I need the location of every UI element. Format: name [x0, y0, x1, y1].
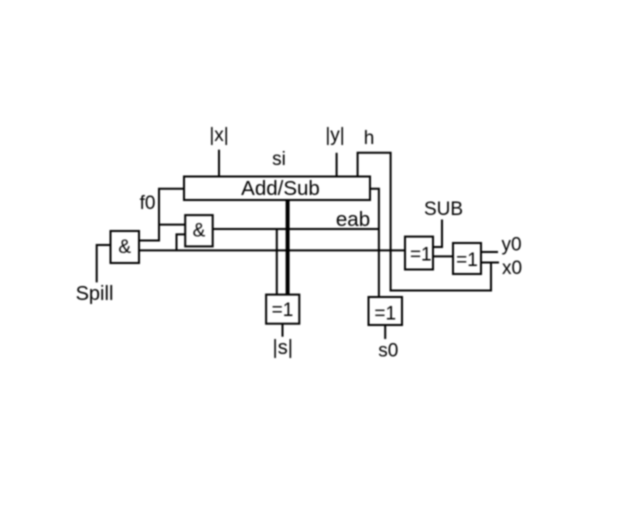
svg-text:&: &: [193, 221, 206, 242]
wire thick bus from Add/Sub bottom into U6 top: [286, 199, 290, 295]
wire h net: from Add/Sub top up, right, down, right, up to x0 input: [358, 153, 491, 291]
wire eab jog from Add/Sub right edge down into U5 top: [370, 189, 379, 297]
svg-text:=1: =1: [272, 300, 294, 321]
wire |y| lead into Add/Sub top: [336, 153, 338, 177]
AND gate G2: [185, 215, 213, 246]
svg-text:|y|: |y|: [325, 125, 344, 146]
svg-text:=1: =1: [374, 304, 396, 325]
svg-text:y0: y0: [501, 235, 521, 256]
wire f0 branch into G2 input: [159, 224, 185, 226]
svg-text:si: si: [272, 149, 286, 170]
svg-text:&: &: [118, 237, 131, 258]
svg-text:|s|: |s|: [273, 337, 293, 359]
wire long line from G1 output to U3 left input: [139, 249, 405, 251]
svg-text:|x|: |x|: [209, 125, 228, 146]
Add/Sub unit box: [184, 177, 370, 201]
svg-text:=1: =1: [410, 244, 432, 265]
XOR gate U3 (=1, SUB): [405, 237, 433, 270]
svg-text:f0: f0: [140, 193, 156, 214]
svg-text:h: h: [364, 128, 375, 149]
wire |x| lead into Add/Sub top: [218, 150, 220, 177]
svg-text:=1: =1: [456, 250, 478, 271]
wire step from long line up into G2 second input: [177, 234, 186, 250]
wire x0 stub into U4 right edge: [481, 262, 499, 264]
wire U5 output stub: [384, 325, 386, 339]
AND gate G1: [111, 231, 140, 263]
svg-text:eab: eab: [336, 208, 370, 231]
wire SUB lead into U3 right edge: [433, 220, 442, 248]
wire U3 output to U4 input: [433, 255, 453, 257]
wire U6 output stub: [282, 324, 284, 337]
svg-text:x0: x0: [502, 258, 522, 279]
svg-text:SUB: SUB: [424, 199, 463, 220]
svg-text:Add/Sub: Add/Sub: [241, 177, 320, 200]
wire tap from eab line down into U6 top: [276, 229, 278, 295]
svg-text:Spill: Spill: [76, 283, 114, 305]
XOR gate U6 (=1, |s|): [266, 295, 299, 324]
wire eab: G2 output to vertical: [213, 228, 379, 230]
wire y0 output from U4: [481, 251, 498, 253]
svg-text:s0: s0: [378, 341, 398, 362]
XOR gate U5 (=1, s0): [369, 297, 403, 325]
XOR gate U4 (=1, y0/x0): [453, 243, 481, 274]
wire Spill lead into G1 input: [97, 245, 111, 282]
wire f0 net: gate G1 output up into Add/Sub left edge: [139, 189, 184, 241]
